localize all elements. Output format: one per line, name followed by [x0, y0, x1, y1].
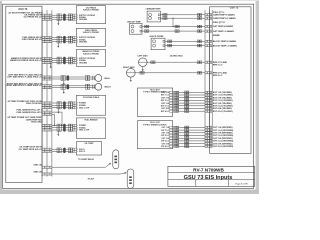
svg-text:EGT 1 LO (YEL/RED): EGT 1 LO (YEL/RED)	[213, 95, 233, 97]
wire	[52, 18, 73, 20]
inline connector RPM 2	[61, 84, 63, 89]
wire	[179, 105, 205, 107]
svg-text:CARB TEMP LO 24AWG: CARB TEMP LO 24AWG	[213, 17, 236, 20]
svg-text:LEFT MAG: LEFT MAG	[137, 54, 148, 57]
svg-text:EGT 3 LO: EGT 3 LO	[161, 106, 170, 108]
svg-text:CHT 2 LO (WHT/RED): CHT 2 LO (WHT/RED)	[213, 135, 234, 137]
wire	[52, 57, 73, 59]
svg-text:BLOCK TEMP HI 24AWG: BLOCK TEMP HI 24AWG	[213, 40, 237, 43]
wire	[179, 143, 205, 145]
wire	[52, 60, 73, 62]
svg-text:GROUND: GROUND	[79, 62, 88, 64]
wire	[52, 150, 73, 152]
wire	[52, 37, 73, 39]
svg-text:28 AWG SHLD: 28 AWG SHLD	[170, 54, 183, 57]
inline connector	[145, 25, 147, 28]
svg-text:GSU 73: GSU 73	[18, 8, 28, 11]
svg-text:GSU 73 EIS Inputs: GSU 73 EIS Inputs	[184, 175, 233, 181]
shield drain to ground	[57, 109, 59, 112]
svg-text:GROUND: GROUND	[79, 41, 88, 43]
svg-text:MANIFOLD PRESS XDCR SIG LO: MANIFOLD PRESS XDCR SIG LO	[10, 59, 42, 62]
title block	[168, 166, 255, 186]
shield drain to ground	[50, 63, 52, 67]
svg-text:EGT 4 LO: EGT 4 LO	[161, 110, 170, 113]
wire	[142, 26, 205, 28]
svg-text:EGT 2 LO: EGT 2 LO	[161, 100, 170, 102]
shield drain rpm 2	[63, 90, 65, 92]
wire RPM 2 pair	[52, 85, 95, 87]
wire	[179, 102, 205, 104]
svg-text:RIGHT MAG: RIGHT MAG	[123, 66, 135, 69]
svg-text:OIL TEMP: OIL TEMP	[85, 143, 95, 145]
svg-text:CARB/AIR TEMP: CARB/AIR TEMP	[145, 7, 161, 10]
svg-text:CHT 2 LO: CHT 2 LO	[161, 135, 170, 137]
svg-text:SIG LO: SIG LO	[79, 151, 86, 153]
svg-text:FLOSCAN 201B-A: FLOSCAN 201B-A	[83, 96, 100, 99]
connector J2 GSU 73 right box	[210, 7, 251, 154]
inline connector	[57, 14, 59, 21]
svg-text:BLACK PROBE: BLACK PROBE	[150, 35, 165, 38]
svg-text:EGT 2 HI (YEL/RED): EGT 2 HI (YEL/RED)	[213, 97, 232, 99]
wire left mag P-lead	[147, 61, 205, 63]
svg-text:FUEL QTY R: FUEL QTY R	[213, 22, 225, 24]
inline connector	[163, 17, 165, 20]
inline connector	[57, 102, 59, 109]
inline connector	[185, 96, 187, 99]
right mag ground stub	[130, 77, 132, 80]
shield drain to ground	[57, 131, 59, 134]
thermocouple box EGT RV-10 type K	[137, 88, 172, 116]
svg-text:TYPE K THERMOCOUPLE: TYPE K THERMOCOUPLE	[143, 124, 167, 126]
wire	[179, 97, 205, 99]
inline connector	[68, 102, 70, 109]
svg-text:OIL TEMP XDCR SIG LO: OIL TEMP XDCR SIG LO	[19, 149, 42, 151]
sensor F3 oil temperature probe	[76, 142, 101, 155]
svg-text:EGT 3 HI (YEL/RED): EGT 3 HI (YEL/RED)	[213, 103, 232, 105]
shield drain to ground	[57, 21, 59, 24]
wire	[52, 124, 73, 126]
pickup coil RPM 1	[95, 75, 102, 82]
svg-text:GND 1 B: GND 1 B	[33, 165, 42, 167]
shield braid	[63, 57, 66, 64]
wire	[179, 126, 205, 128]
svg-text:BLOCK TEMP LO 24AWG: BLOCK TEMP LO 24AWG	[213, 44, 238, 47]
svg-text:CHT 1 HI (WHT/RED): CHT 1 HI (WHT/RED)	[213, 127, 233, 129]
wire	[179, 91, 205, 93]
svg-text:CHT 1 LO: CHT 1 LO	[161, 130, 170, 132]
wire	[52, 127, 73, 129]
svg-text:EGT 1 HI: EGT 1 HI	[162, 92, 170, 94]
svg-text:TO START RELAY: TO START RELAY	[78, 158, 95, 161]
shield braid	[63, 101, 66, 109]
connector J1 GSU 73 left box	[6, 6, 42, 182]
inline connector	[185, 140, 187, 143]
svg-text:EGT 2 HI: EGT 2 HI	[162, 97, 170, 99]
wire	[160, 17, 205, 19]
svg-text:EGT 4 LO (YEL/RED): EGT 4 LO (YEL/RED)	[213, 110, 233, 113]
svg-text:GSU 73: GSU 73	[230, 7, 239, 10]
inline connector	[57, 57, 59, 64]
sensor P1 oil pressure probe	[76, 6, 105, 24]
inline connector	[145, 30, 147, 33]
svg-text:RV-7 N709WB: RV-7 N709WB	[193, 168, 224, 173]
wire	[179, 94, 205, 96]
wire	[142, 30, 205, 32]
wire	[52, 107, 73, 109]
svg-text:SHLD GND: SHLD GND	[31, 121, 42, 123]
sheet frame	[3, 4, 254, 188]
wire	[52, 62, 73, 64]
svg-text:GND 2 B: GND 2 B	[33, 172, 42, 174]
inline connector	[185, 132, 187, 135]
svg-text:CHT 3 LO: CHT 3 LO	[161, 141, 170, 143]
left mag ground stub	[142, 67, 144, 70]
svg-text:RPM 2 LO: RPM 2 LO	[213, 75, 223, 77]
svg-text:EGT 3 LO (YEL/RED): EGT 3 LO (YEL/RED)	[213, 106, 233, 108]
shield drain rpm 1	[63, 81, 65, 83]
inline connector	[185, 94, 187, 97]
wire	[52, 16, 73, 18]
wire to start relay	[52, 166, 106, 168]
svg-text:CHT 1 LO (WHT/RED): CHT 1 LO (WHT/RED)	[213, 130, 234, 132]
svg-text:EGT 4 HI: EGT 4 HI	[162, 107, 170, 110]
wire	[179, 145, 205, 147]
svg-text:CHT 4 LO: CHT 4 LO	[161, 145, 170, 148]
svg-text:EGT 4 HI (YEL/RED): EGT 4 HI (YEL/RED)	[213, 107, 232, 110]
svg-text:OAT TEMP HI 24AWG: OAT TEMP HI 24AWG	[213, 25, 234, 28]
wire	[179, 110, 205, 112]
inline connector	[57, 36, 59, 43]
svg-text:GND +5 O/P: GND +5 O/P	[79, 130, 90, 132]
wire right mag P-lead	[135, 72, 205, 74]
shield braid	[63, 36, 66, 43]
inline connector	[185, 137, 187, 140]
inline connector	[185, 126, 187, 129]
svg-text:LEFT MAG RPM 1 P-LEAD SHLD LO: LEFT MAG RPM 1 P-LEAD SHLD LO	[7, 76, 42, 79]
wire to alternator	[52, 173, 121, 175]
node shared ground stub	[172, 18, 174, 26]
svg-text:MAG R: MAG R	[105, 86, 112, 89]
wire	[165, 45, 205, 47]
wire	[179, 135, 205, 137]
svg-text:RIGHT MAG RPM 2 P-LEAD SHLD LO: RIGHT MAG RPM 2 P-LEAD SHLD LO	[6, 84, 42, 87]
inline connector	[185, 110, 187, 113]
inline connector	[68, 148, 70, 153]
inline connector	[68, 36, 70, 43]
svg-text:FUEL FLOW SIG: FUEL FLOW SIG	[26, 103, 42, 105]
svg-text:EGT 2 LO (YEL/RED): EGT 2 LO (YEL/RED)	[213, 100, 233, 102]
pin strip left connector	[41, 10, 43, 176]
inline connector	[68, 124, 70, 131]
inline connector	[185, 105, 187, 108]
wire	[179, 129, 205, 131]
svg-text:AIR/OAT TEMP: AIR/OAT TEMP	[127, 21, 141, 24]
svg-text:FUEL REMAIN: FUEL REMAIN	[85, 119, 99, 122]
inline connector	[57, 124, 59, 131]
svg-text:Page 8 of 98: Page 8 of 98	[235, 184, 248, 186]
sensor F1 fuel flow transducer	[76, 95, 105, 115]
sensor F2 fuel return transducer	[76, 118, 105, 139]
inline connector	[68, 57, 70, 64]
svg-text:EGT 1 HI (YEL/RED): EGT 1 HI (YEL/RED)	[213, 92, 232, 94]
svg-text:CHT 4 HI: CHT 4 HI	[162, 142, 170, 145]
svg-text:EGT 1 LO: EGT 1 LO	[161, 95, 170, 97]
wire fuel sensor pull-up 1	[52, 111, 62, 113]
inline connector	[185, 91, 187, 94]
svg-text:CHT 4 LO (WHT/RED): CHT 4 LO (WHT/RED)	[213, 145, 234, 148]
wire	[52, 14, 73, 16]
firewall pass-through alt	[127, 169, 134, 188]
inline connector	[185, 145, 187, 148]
thermocouple box CHT RV-10 type K	[137, 121, 172, 149]
svg-text:CHT 3 LO (WHT/RED): CHT 3 LO (WHT/RED)	[213, 141, 234, 143]
wire	[179, 108, 205, 110]
svg-text:GROUND: GROUND	[79, 19, 88, 21]
svg-text:KAVLICO PROBE: KAVLICO PROBE	[83, 52, 99, 55]
wire	[52, 148, 73, 150]
inline connector	[68, 14, 70, 21]
svg-text:TO ALT: TO ALT	[88, 178, 95, 181]
svg-text:SPARE: SPARE	[213, 34, 220, 37]
wire	[165, 40, 205, 42]
svg-text:KAVLICO PROBE: KAVLICO PROBE	[83, 9, 99, 12]
svg-text:OAT TEMP LO 24AWG: OAT TEMP LO 24AWG	[213, 30, 234, 33]
svg-text:FUEL PRESS SIG LO: FUEL PRESS SIG LO	[22, 39, 42, 41]
svg-text:EGT 3 HI: EGT 3 HI	[162, 103, 170, 105]
svg-text:CHT 2 HI (WHT/RED): CHT 2 HI (WHT/RED)	[213, 133, 233, 135]
page background	[0, 0, 259, 194]
shield braid	[63, 14, 66, 21]
sensor P2 fuel pressure probe	[76, 28, 105, 46]
wire	[52, 129, 73, 131]
wire	[52, 102, 73, 104]
firewall pass-through start	[113, 150, 119, 169]
shield braid	[63, 148, 66, 153]
pickup coil RPM 2	[95, 83, 102, 90]
inline connector	[163, 14, 165, 17]
inline connector	[185, 99, 187, 102]
wire	[179, 137, 205, 139]
inline connector	[168, 40, 170, 43]
wire RPM 1 pair	[52, 76, 95, 78]
wire	[179, 140, 205, 142]
inline connector	[168, 44, 170, 47]
wire	[179, 99, 205, 101]
svg-text:KAVLICO PROBE: KAVLICO PROBE	[83, 31, 99, 34]
svg-text:RPM 1 LO: RPM 1 LO	[213, 64, 223, 66]
inline connector	[185, 142, 187, 145]
wire	[52, 39, 73, 41]
wire	[160, 14, 205, 16]
inline connector	[185, 129, 187, 132]
svg-text:CHT 1 HI: CHT 1 HI	[162, 127, 170, 129]
inline connector	[185, 107, 187, 110]
svg-text:FUEL SENSOR PULL-UP 2: FUEL SENSOR PULL-UP 2	[17, 112, 43, 114]
inline connector RPM 1	[61, 76, 63, 81]
inline connector	[185, 134, 187, 137]
inline connector	[57, 148, 59, 153]
svg-text:MAG L: MAG L	[105, 77, 112, 80]
shield braid	[63, 124, 66, 132]
svg-text:FUEL QTY L: FUEL QTY L	[213, 12, 225, 14]
svg-text:CHT 3 HI: CHT 3 HI	[162, 138, 170, 140]
wire fuel sensor pull-up 2	[52, 113, 55, 115]
svg-text:GND +5 O/P: GND +5 O/P	[79, 107, 90, 109]
sensor P3 manifold pressure probe	[76, 49, 105, 66]
svg-text:CHT 4 HI (WHT/RED): CHT 4 HI (WHT/RED)	[213, 142, 233, 145]
inline connector	[185, 102, 187, 105]
pin strip right connector	[204, 10, 206, 147]
shield drain to ground	[57, 43, 59, 46]
wire	[179, 132, 205, 134]
svg-text:CHT 3 HI (WHT/RED): CHT 3 HI (WHT/RED)	[213, 138, 233, 140]
svg-text:OIL PRESS SIG LO: OIL PRESS SIG LO	[24, 17, 42, 19]
wire	[52, 41, 73, 43]
wire	[52, 104, 73, 106]
svg-text:CHT 2 HI: CHT 2 HI	[162, 133, 170, 135]
